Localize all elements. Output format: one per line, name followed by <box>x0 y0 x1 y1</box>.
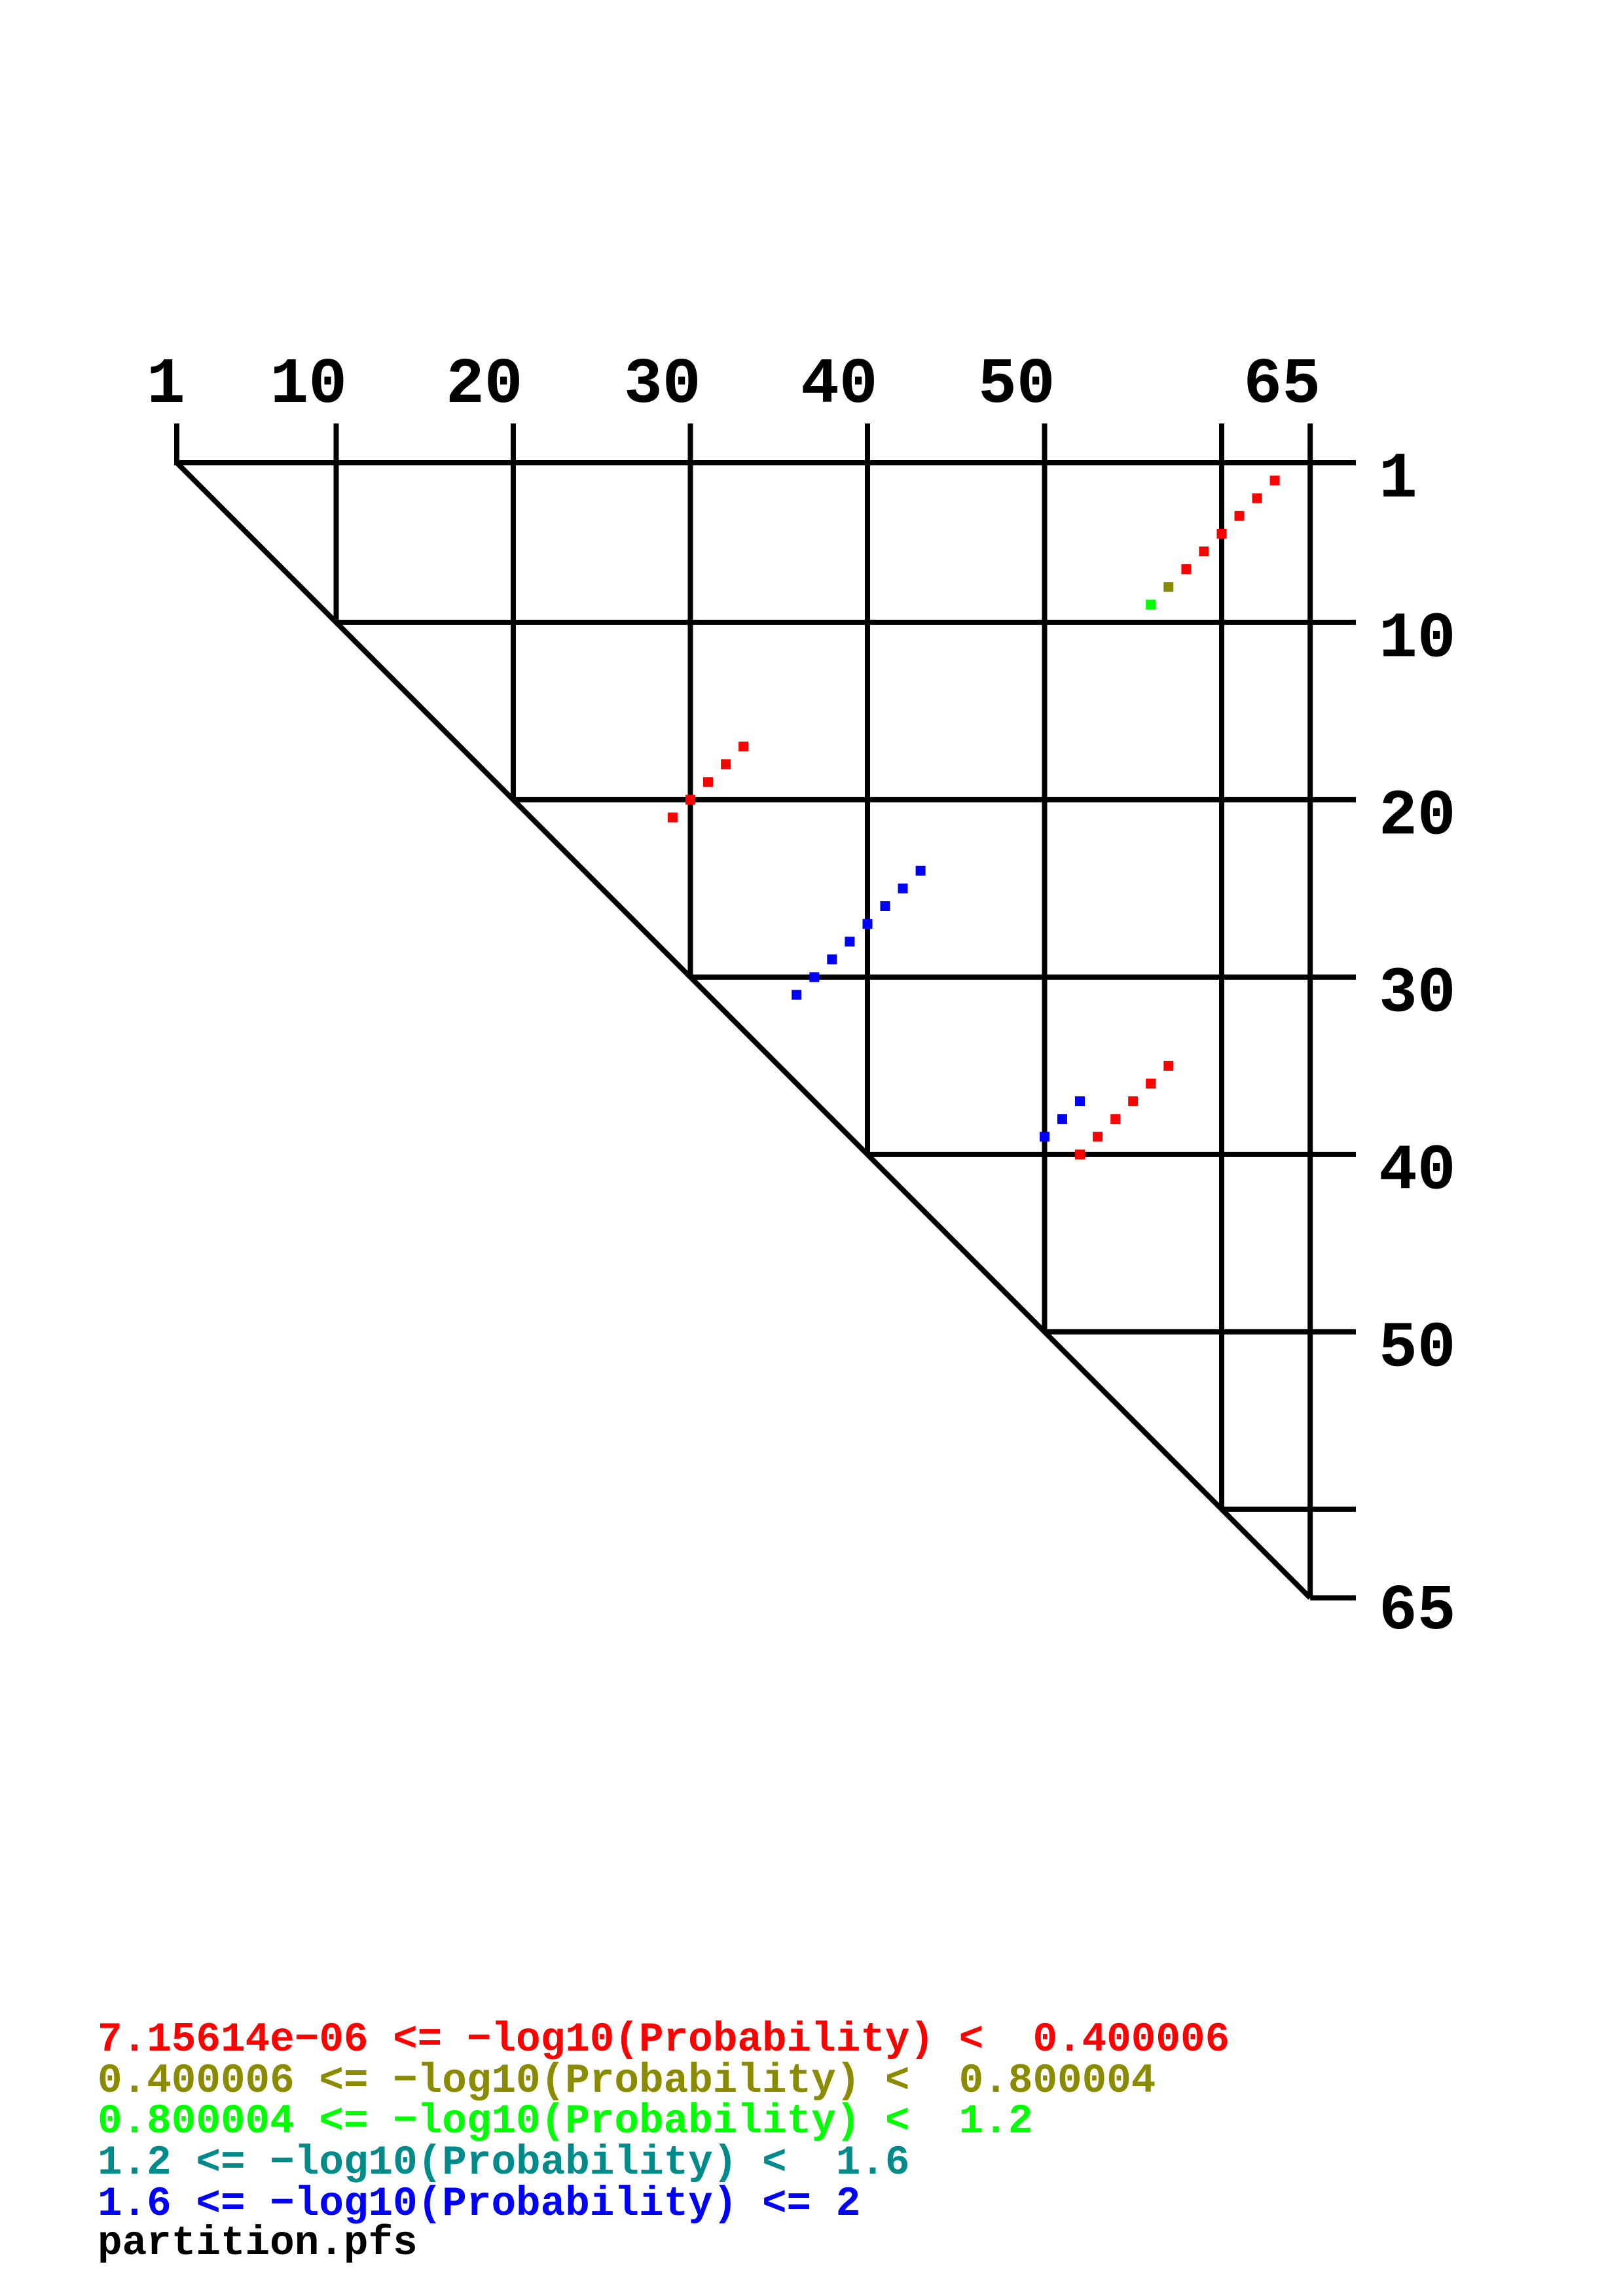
vertical grid line col 10 <box>334 423 339 622</box>
main diagonal <box>177 463 1310 1598</box>
vertical tick col 1 <box>174 423 179 465</box>
dot pair (6,59) red <box>1199 547 1209 556</box>
svg-text:1: 1 <box>147 349 185 422</box>
horizontal grid line row 10 <box>337 620 1357 625</box>
svg-text:50: 50 <box>978 349 1055 422</box>
svg-text:40: 40 <box>801 349 878 422</box>
svg-text:partition.pfs: partition.pfs <box>98 2220 418 2267</box>
top axis line (row 1) <box>174 460 1356 465</box>
svg-text:10: 10 <box>270 349 348 422</box>
dot pair (20,30) red <box>685 795 695 804</box>
dot pair (35,57) red <box>1163 1061 1173 1071</box>
horizontal tick row 65 <box>1310 1595 1356 1600</box>
dot pair (19,31) red <box>703 777 713 787</box>
vertical grid line col 30 <box>688 423 693 977</box>
svg-text:30: 30 <box>624 349 701 422</box>
dot pair (31,36) blue <box>792 990 801 1000</box>
svg-text:0.400006 <= −log10(Probability: 0.400006 <= −log10(Probability) < 0.8000… <box>98 2058 1156 2104</box>
dot pair (28,39) blue <box>845 937 854 946</box>
dot pair (37,52) blue <box>1075 1096 1085 1106</box>
horizontal grid line row 30 <box>691 975 1357 980</box>
svg-text:7.15614e−06 <= −log10(Probabil: 7.15614e−06 <= −log10(Probability) < 0.4… <box>98 2017 1230 2063</box>
dot pair (21,29) red <box>668 813 678 823</box>
horizontal grid line row 60 <box>1222 1507 1356 1512</box>
dot pair (25,42) blue <box>898 884 908 893</box>
dot pair (38,51) blue <box>1057 1114 1067 1124</box>
dot pair (24,43) blue <box>916 866 926 876</box>
dot pair (37,55) red <box>1128 1096 1138 1106</box>
svg-text:20: 20 <box>1379 780 1456 853</box>
dot pair (38,54) red <box>1110 1114 1120 1124</box>
horizontal grid line row 40 <box>867 1152 1356 1157</box>
horizontal grid line row 50 <box>1045 1329 1357 1335</box>
svg-text:65: 65 <box>1379 1575 1456 1648</box>
dot pair (9,56) green <box>1146 600 1156 609</box>
dot pair (18,32) red <box>721 759 731 769</box>
svg-text:40: 40 <box>1379 1135 1456 1208</box>
dot pair (39,53) red <box>1093 1132 1103 1141</box>
dot pair (5,60) red <box>1217 529 1227 539</box>
vertical grid line col 60 <box>1219 423 1224 1509</box>
dot pair (7,58) red <box>1181 564 1191 574</box>
svg-text:10: 10 <box>1379 603 1456 675</box>
horizontal grid line row 20 <box>513 797 1356 802</box>
dot pair (29,38) blue <box>827 954 837 964</box>
svg-text:50: 50 <box>1379 1312 1456 1385</box>
svg-text:65: 65 <box>1243 349 1321 422</box>
dot pair (4,61) red <box>1235 511 1245 521</box>
vertical grid line col 50 <box>1042 423 1048 1332</box>
svg-text:0.800004 <= −log10(Probability: 0.800004 <= −log10(Probability) < 1.2 <box>98 2098 1032 2145</box>
dot pair (30,37) blue <box>809 972 819 982</box>
dot pair (39,50) blue <box>1040 1132 1049 1141</box>
dot pair (8,57) olive <box>1163 582 1173 592</box>
vertical grid line col 20 <box>511 423 516 800</box>
vertical grid line col 65 <box>1307 423 1313 1598</box>
svg-text:20: 20 <box>446 349 523 422</box>
svg-text:30: 30 <box>1379 958 1456 1030</box>
dot pair (17,33) red <box>739 742 748 751</box>
dot pair (2,63) red <box>1270 476 1280 486</box>
vertical grid line col 40 <box>865 423 870 1155</box>
dot pair (3,62) red <box>1252 493 1262 503</box>
dot pair (36,56) red <box>1146 1079 1156 1088</box>
svg-text:1: 1 <box>1379 444 1417 516</box>
dot pair (27,40) blue <box>863 919 873 929</box>
dot pair (26,41) blue <box>881 901 890 911</box>
dot pair (40,52) red <box>1075 1149 1085 1159</box>
svg-text:1.2 <= −log10(Probability) <: 1.2 <= −log10(Probability) < 1.6 <box>98 2140 910 2186</box>
